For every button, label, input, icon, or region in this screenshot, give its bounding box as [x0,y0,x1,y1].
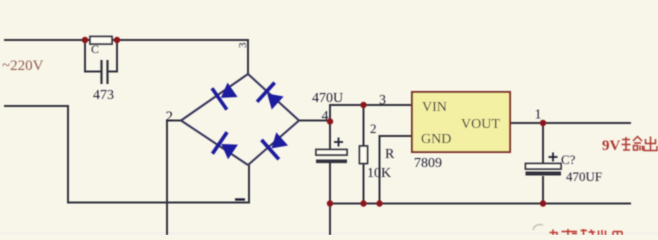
svg-text:~220V: ~220V [2,58,44,74]
wire stub below ground rail at x=330 [329,204,331,236]
diode D2 top-right of bridge [256,81,287,112]
junction dot left of C box [82,37,88,43]
wire bridge right corner to node 4 [299,120,330,122]
svg-text:3: 3 [237,42,249,48]
wire capacitor C1 470U bottom lead [329,163,331,204]
wire top AC line from ~220V input to bridge top [4,40,248,74]
wire resistor R top lead [363,105,365,146]
wire capacitor C1 470U top lead [329,121,331,150]
wire VOUT output line [510,122,631,124]
capacitor C1 470U negative plate [316,160,347,164]
capacitor C 473 series box on wire [90,37,112,45]
svg-text:2: 2 [370,121,377,136]
junction dot VOUT / C2 top [540,120,546,126]
wire second AC line from ~220V input to bridge bottom [4,106,249,203]
junction dot node 4 [327,118,333,124]
capacitor C 473 leads [85,40,117,72]
svg-text:470U: 470U [312,91,343,106]
svg-text:2: 2 [166,109,174,125]
svg-text:9V: 9V [602,138,621,154]
capacitor C2 470UF positive plate [526,164,562,170]
watermark curl [533,225,543,230]
wire resistor R bottom lead [363,164,365,204]
svg-text:GND: GND [421,132,451,147]
junction dot ground rail below R [360,200,366,206]
wire ground rail bottom right [330,203,631,205]
svg-text:1: 1 [535,108,542,123]
capacitor C1 plus sign [334,138,343,147]
svg-text:R: R [385,147,395,162]
svg-text:C?: C? [561,152,576,167]
capacitor C2 plus sign [549,153,558,162]
wire capacitor C2 470UF bottom lead [542,176,544,204]
svg-text:470UF: 470UF [566,169,602,184]
svg-text:3: 3 [379,93,386,108]
junction dot ground rail below C2 [540,200,546,206]
drawn hanzi shu (output 1st char) [622,137,643,151]
label 9V output [602,137,657,155]
capacitor C 473 right plate [106,60,108,84]
junction dot right of C box [114,37,120,43]
bridge rectifier diamond sides [181,74,299,165]
wire 7809 GND pin to ground rail [380,136,413,204]
wire capacitor C2 470UF top lead [542,123,544,164]
watermark red text tops clipped at bottom edge [550,229,623,235]
svg-text:VOUT: VOUT [461,117,500,132]
junction dot VIN rail / resistor top [360,102,366,108]
label minus polarity at bridge bottom [235,198,245,200]
capacitor C2 470UF negative plate [526,172,562,176]
wire node 4 riser to VIN rail [329,105,331,122]
svg-text:C: C [91,42,99,56]
diode D3 bottom-left of bridge [211,131,240,163]
bottom pale strip [0,232,658,235]
wire VIN rail from node 4 to 7809 VIN pin [329,104,412,106]
capacitor C1 470U positive plate [316,150,347,156]
junction dot ground rail below GND pin [376,200,382,206]
resistor R body [360,146,368,164]
capacitor C 473 left plate [100,60,102,84]
diode D1 top-left of bridge [211,79,240,111]
regulator U1 7809 body [412,92,510,152]
svg-text:473: 473 [93,88,114,103]
svg-text:10K: 10K [367,166,391,181]
drawn hanzi chu (output 2nd char) [644,137,657,151]
svg-text:VIN: VIN [422,100,447,115]
svg-text:7809: 7809 [414,156,442,171]
junction dot ground rail below C1 [327,200,333,206]
diode D4 bottom-right of bridge [260,129,291,160]
wire bridge left corner to vertical drop [167,121,181,236]
